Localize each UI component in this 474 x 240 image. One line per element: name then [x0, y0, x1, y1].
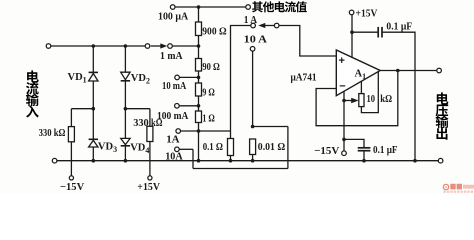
- junction rail-ladder: [197, 159, 201, 163]
- resistor 1 ohm: [196, 111, 202, 123]
- wire: 1A tap: [181, 130, 231, 132]
- wire: pot bottom to output: [361, 72, 378, 113]
- resistor 9 ohm: [196, 83, 202, 96]
- junction rail-0.1ohm: [229, 159, 233, 163]
- wire: 10A link: [253, 126, 288, 128]
- wire: 10A bottom stub: [179, 148, 193, 150]
- svg-text:0.1 μF: 0.1 μF: [386, 20, 412, 32]
- svg-text:330 kΩ: 330 kΩ: [39, 127, 66, 139]
- junction wiper node: [342, 99, 346, 103]
- svg-text:0.01 Ω: 0.01 Ω: [258, 141, 286, 153]
- wire: top input rail: [51, 45, 145, 47]
- svg-text:−15V: −15V: [60, 181, 84, 193]
- junction rail-C2: [362, 159, 366, 163]
- power -15V terminal mid: [342, 151, 347, 156]
- svg-text:−15V: −15V: [314, 145, 339, 157]
- diode VD3: [89, 138, 98, 140]
- diode VD2: [121, 72, 130, 80]
- junction 10A node: [251, 125, 255, 129]
- wire: left 330k column to -15V: [70, 109, 72, 176]
- wire: 10A detour bottom: [193, 168, 288, 170]
- wire: 10A detour right leg: [287, 127, 289, 169]
- label 电流输入 (current input): [27, 70, 39, 82]
- svg-text:1 A: 1 A: [244, 14, 257, 26]
- node: voltage-output top terminal: [437, 68, 442, 73]
- node: other-currents terminal: [246, 5, 251, 10]
- node: 1mA switch circle A: [145, 44, 150, 49]
- node: 10A bottom terminal: [175, 147, 180, 152]
- wire: VD2/VD4 column: [124, 46, 126, 161]
- watermark logo (decorative): [443, 184, 474, 193]
- junction rail-VD3: [92, 159, 96, 163]
- junction ladder 1mA tap: [197, 44, 201, 48]
- svg-text:10A: 10A: [165, 150, 183, 162]
- junction V+ cap node: [350, 30, 354, 34]
- svg-text:10 mA: 10 mA: [162, 80, 186, 92]
- wire: 10A top column: [252, 51, 254, 126]
- label 其他电流值 (other current values): [252, 1, 263, 12]
- node: common bottom-rail left terminal: [52, 158, 57, 163]
- resistor 900 ohm: [196, 22, 202, 36]
- wire: right 330k column to +15V: [149, 109, 151, 176]
- junction ladder 1A tap: [197, 129, 201, 133]
- node: 100uA terminal: [170, 5, 175, 10]
- wire: feedback loop: [316, 71, 398, 126]
- svg-text:90 Ω: 90 Ω: [202, 61, 220, 73]
- resistor R 330k-right: [147, 126, 153, 141]
- switch arrow 1mA: [151, 45, 161, 47]
- node: 1A terminal left: [176, 129, 181, 134]
- wire: mid link to left 330k: [71, 108, 93, 110]
- wire: output: [380, 70, 437, 72]
- resistor 90 ohm: [196, 59, 202, 72]
- wire: 10A detour left leg: [192, 149, 194, 168]
- wire: ladder column: [198, 7, 200, 161]
- diode VD4: [121, 138, 130, 144]
- svg-text:10: 10: [367, 93, 376, 105]
- junction rail-VD4: [124, 159, 128, 163]
- junction on input rail at VD2: [124, 44, 128, 48]
- svg-text:330: 330: [133, 117, 149, 129]
- wire: VD1/VD3 column: [92, 46, 94, 161]
- svg-text:kΩ: kΩ: [380, 93, 392, 105]
- capacitor C2 0.1uF: [344, 139, 364, 147]
- capacitor C1 0.1uF: [352, 31, 378, 33]
- power +15V terminal top: [349, 10, 354, 15]
- wire: 10mA tap: [180, 76, 199, 78]
- potentiometer RP 10k: [360, 81, 362, 94]
- resistor 0.01 ohm shunt: [250, 139, 256, 155]
- wire: 100mA tap: [179, 105, 198, 107]
- op-amp U1 uA741 triangle: [336, 50, 380, 96]
- svg-text:−: −: [339, 81, 345, 93]
- junction VD2-column mid node: [124, 107, 128, 111]
- power -15V terminal bottom-left: [69, 176, 73, 180]
- svg-text:μA741: μA741: [291, 72, 317, 84]
- svg-text:+: +: [339, 55, 345, 67]
- svg-text:0.1 Ω: 0.1 Ω: [203, 141, 223, 153]
- resistor 0.1 ohm shunt: [230, 131, 232, 139]
- wire: 1mA tap: [172, 45, 198, 47]
- wire: common bottom rail: [57, 160, 438, 162]
- node: 10A top terminal: [250, 47, 255, 52]
- svg-text:9 Ω: 9 Ω: [202, 87, 215, 99]
- svg-text:1 Ω: 1 Ω: [202, 113, 215, 125]
- junction rail-C1: [413, 159, 417, 163]
- svg-text:1A: 1A: [166, 134, 179, 146]
- junction ladder 100mA tap: [197, 104, 201, 108]
- svg-text:900 Ω: 900 Ω: [202, 25, 226, 37]
- node: 1mA switch circle B: [168, 44, 173, 49]
- svg-text:1 mA: 1 mA: [160, 50, 183, 62]
- svg-text:+15V: +15V: [356, 8, 378, 20]
- wire: 100uA tap to ladder top: [175, 6, 246, 8]
- junction VD1-column mid node: [92, 107, 96, 111]
- svg-text:+15V: +15V: [137, 181, 160, 193]
- power +15V terminal bottom-left: [148, 176, 152, 180]
- node: 100mA terminal: [175, 104, 180, 109]
- wire: 1A switch to opamp +: [279, 26, 336, 57]
- wire: V- pin: [343, 92, 345, 151]
- junction output-feedback: [396, 69, 400, 73]
- wire: mid link to right 330k: [125, 108, 149, 110]
- diode VD1: [89, 71, 98, 73]
- node: voltage-output bottom terminal: [438, 158, 443, 163]
- wire: V+ pin: [351, 15, 353, 58]
- label 电压输出 (voltage output): [437, 92, 449, 104]
- svg-text:10 A: 10 A: [244, 33, 267, 45]
- junction V- cap node: [342, 138, 346, 142]
- junction ladder top: [197, 5, 201, 9]
- node: 1A switch circle A: [251, 23, 256, 28]
- resistor R 330k-left: [68, 127, 74, 142]
- junction on input rail at VD1: [92, 44, 96, 48]
- node: current-input top terminal: [46, 44, 51, 49]
- junction ladder 10mA tap: [197, 76, 201, 80]
- switch arrow 1A: [265, 25, 275, 27]
- node: 1A switch circle B: [274, 23, 279, 28]
- svg-text:100 mA: 100 mA: [157, 110, 188, 122]
- svg-text:0.1 μF: 0.1 μF: [373, 144, 398, 156]
- wire: 1A jack column: [231, 26, 251, 132]
- node: 10mA terminal: [175, 75, 180, 80]
- junction rail-0.01ohm: [251, 159, 255, 163]
- svg-text:100 μA: 100 μA: [158, 10, 188, 22]
